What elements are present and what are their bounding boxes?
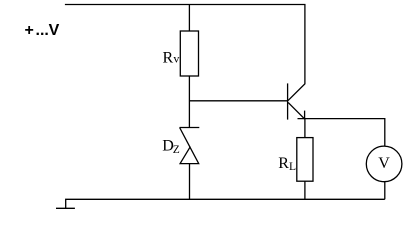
svg-text:...: ... [36,22,49,39]
svg-text:+: + [25,22,34,39]
svg-text:V: V [378,155,390,172]
svg-text:L: L [289,161,296,173]
svg-text:R: R [278,155,289,172]
svg-text:V: V [49,22,60,39]
svg-text:Z: Z [173,144,180,156]
svg-text:R: R [163,49,174,66]
svg-text:v: v [173,52,179,66]
